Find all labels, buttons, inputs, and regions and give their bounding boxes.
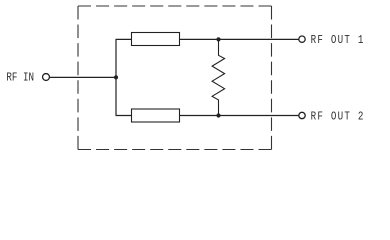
- terminal J2 (RF OUT 1 port): [299, 36, 305, 42]
- node top output junction: [216, 37, 220, 41]
- wire R2 to output 2: [180, 115, 299, 117]
- resistor R2 (bottom box): [132, 109, 180, 122]
- enclosure dashed box left edge: [77, 6, 79, 150]
- svg-text:RF OUT 1: RF OUT 1: [311, 34, 365, 47]
- node input junction: [114, 75, 118, 79]
- svg-text:RF IN: RF IN: [6, 72, 34, 85]
- svg-text:RF OUT 2: RF OUT 2: [311, 111, 365, 124]
- wire bottom branch to R2: [116, 115, 132, 117]
- enclosure dashed box top edge: [78, 5, 272, 7]
- resistor R3 (zigzag bridge): [212, 40, 225, 115]
- wire R1 to output 1: [180, 38, 299, 40]
- resistor R1 (top box): [132, 33, 180, 46]
- terminal J1 (RF IN port): [43, 74, 50, 81]
- wire top branch to R1: [116, 38, 132, 40]
- node bottom output junction: [216, 113, 220, 117]
- enclosure dashed box right edge: [271, 6, 273, 150]
- wire vertical split bus: [115, 39, 117, 115]
- enclosure dashed box bottom edge: [78, 149, 272, 151]
- terminal J3 (RF OUT 2 port): [299, 112, 305, 118]
- wire input: [50, 76, 117, 78]
